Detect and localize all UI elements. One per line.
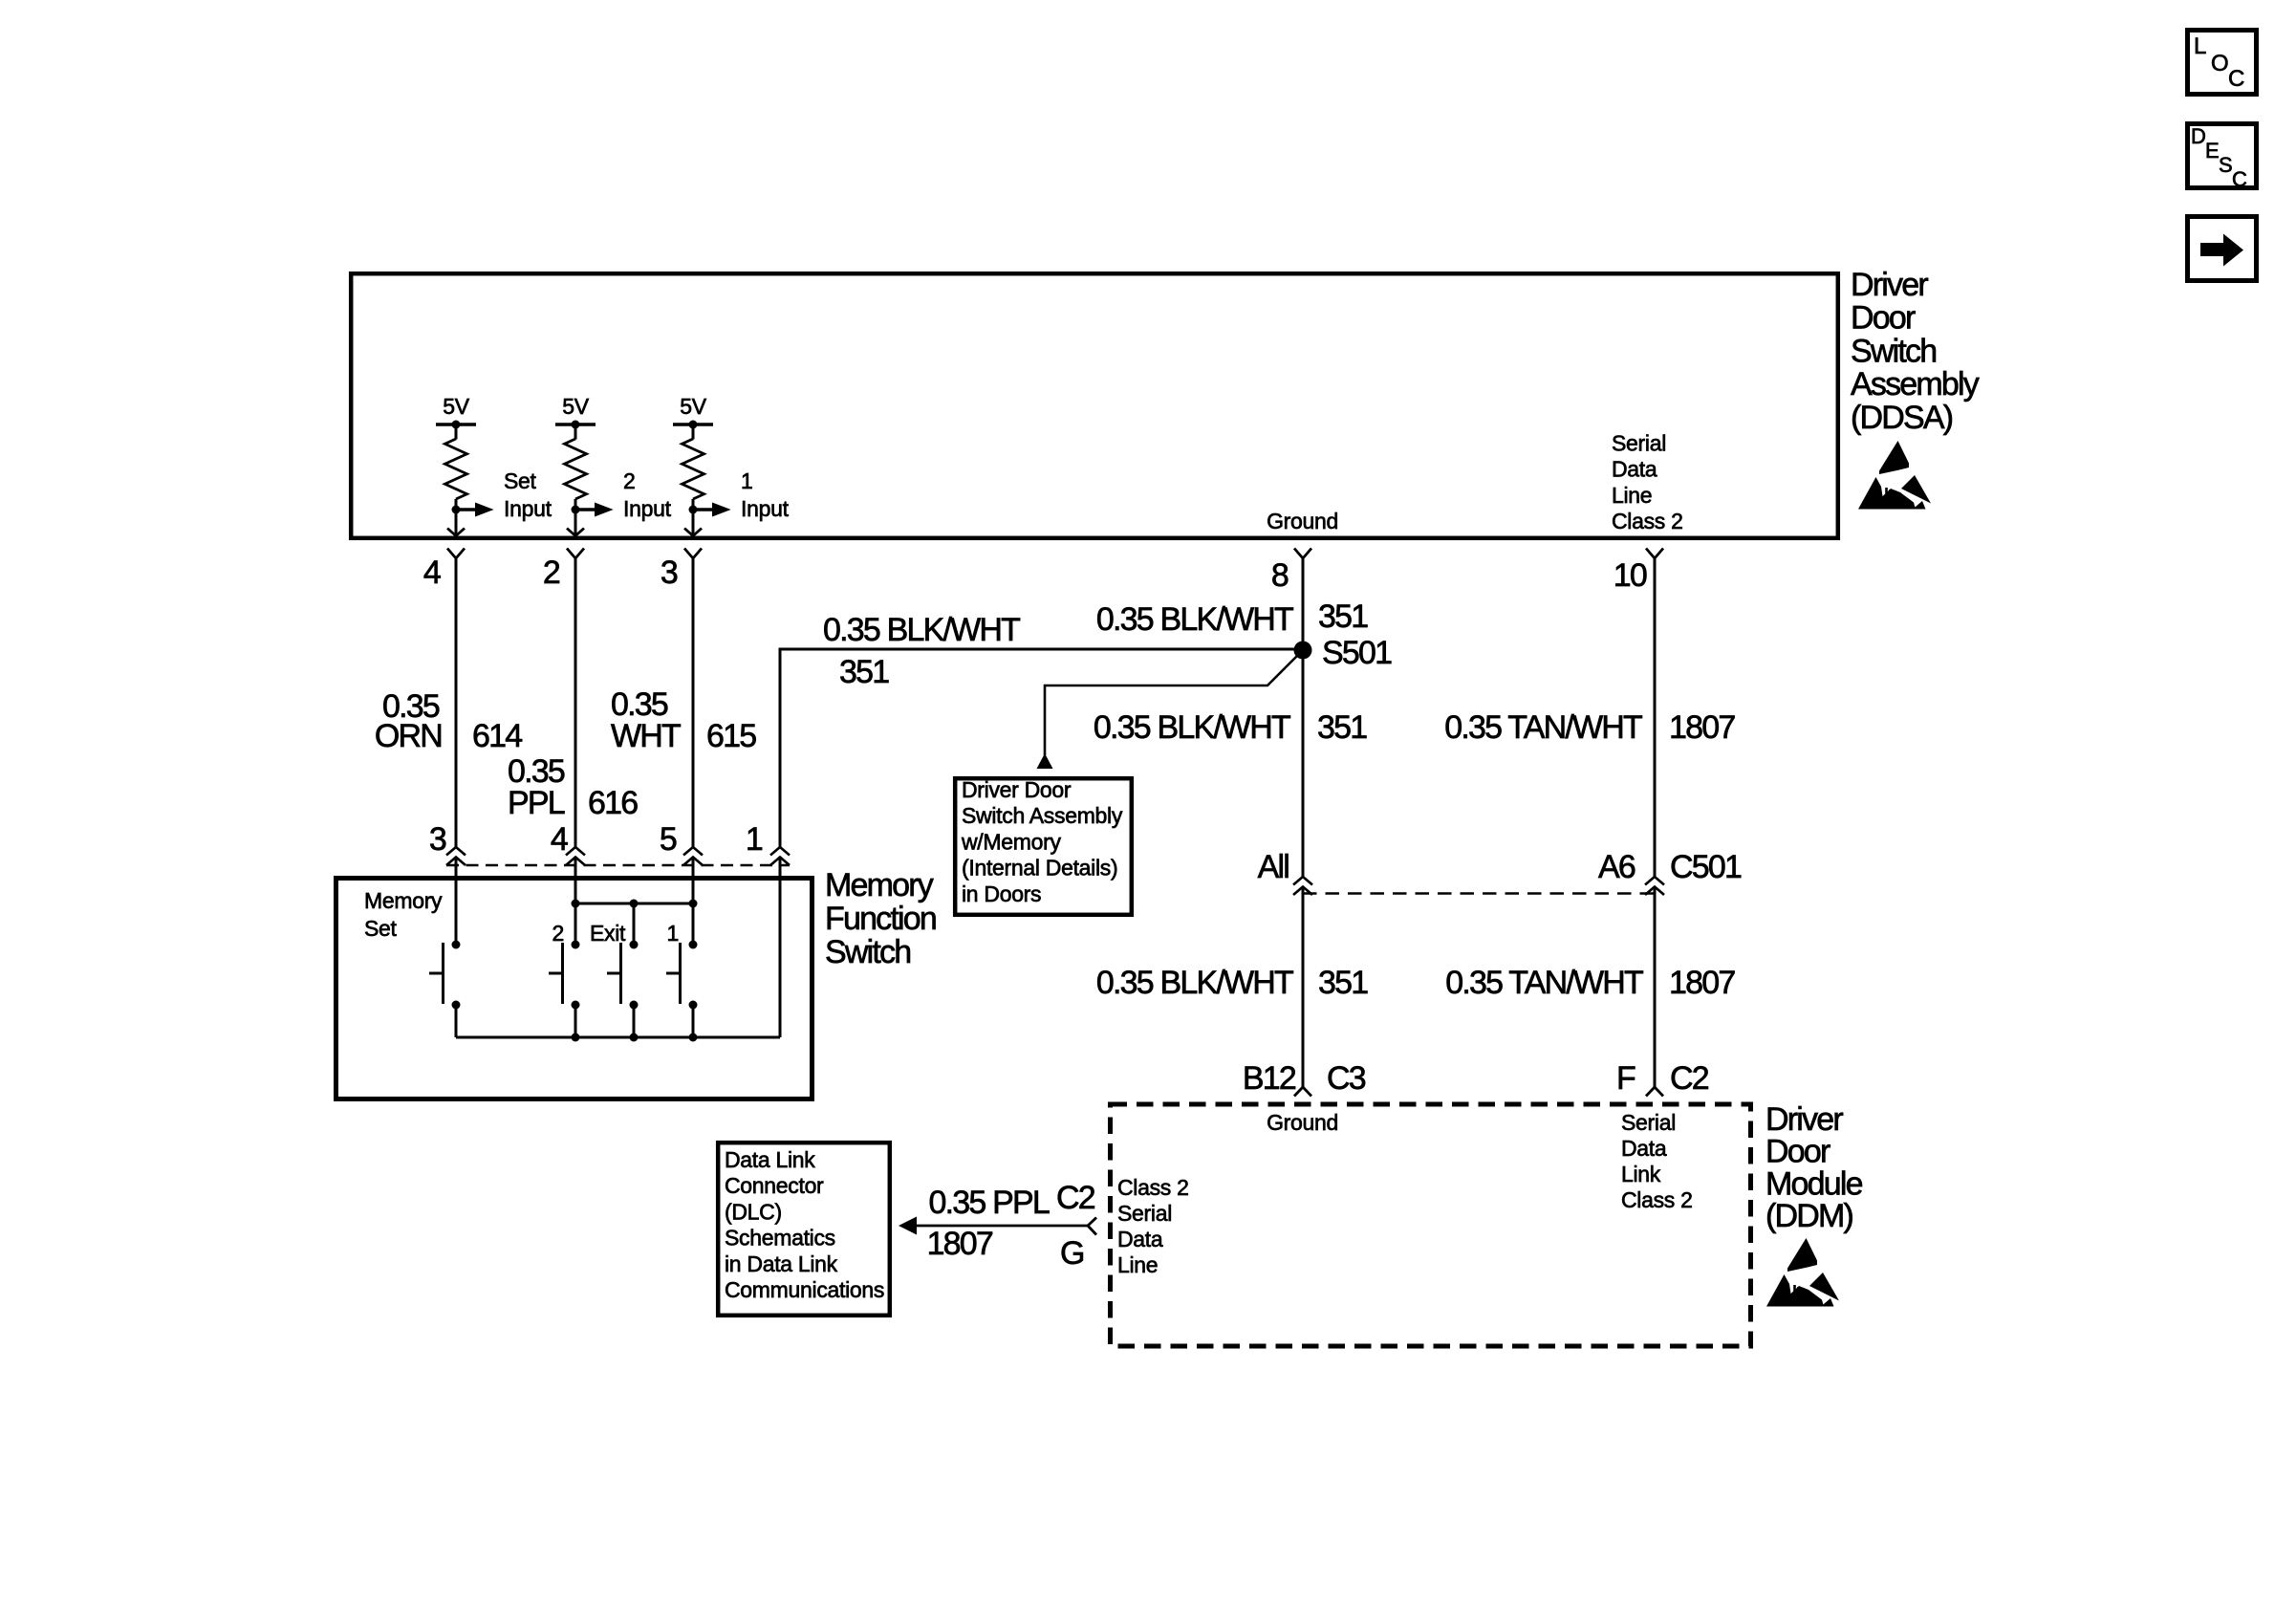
svg-text:2: 2 [552, 921, 565, 946]
Driver Door Switch Assembly (DDSA) box [351, 273, 1838, 538]
svg-text:1807: 1807 [1669, 709, 1735, 746]
svg-text:351: 351 [1317, 709, 1367, 746]
DDSA pin 2 connector [567, 549, 584, 559]
svg-text:Input: Input [623, 496, 672, 521]
svg-text:Serial: Serial [1621, 1110, 1676, 1135]
svg-text:Memory: Memory [364, 888, 443, 913]
svg-text:PPL: PPL [508, 785, 565, 821]
junction top bus left [572, 900, 580, 908]
svg-text:Line: Line [1117, 1252, 1158, 1277]
svg-text:Schematics: Schematics [725, 1226, 835, 1251]
DDSA pin 3 connector [684, 549, 702, 559]
wire 351 (C501 to DDM B12) [1302, 887, 1305, 1088]
svg-text:Function: Function [825, 901, 936, 937]
svg-text:ORN: ORN [375, 718, 442, 754]
resistor R3 with 1 Input arrow [673, 394, 790, 536]
svg-text:0.35 TAN/WHT: 0.35 TAN/WHT [1445, 965, 1643, 1001]
svg-text:w/Memory: w/Memory [961, 829, 1061, 854]
svg-text:Serial: Serial [1612, 431, 1666, 456]
svg-text:5V: 5V [680, 394, 706, 419]
DDSA pin 10 connector [1646, 549, 1663, 559]
svg-text:Link: Link [1621, 1162, 1661, 1186]
wire 1807 to DLC with arrowhead [899, 1217, 1088, 1235]
svg-text:Data Link: Data Link [725, 1147, 815, 1172]
svg-text:4: 4 [551, 821, 568, 858]
memory switch pin 1 connector [770, 847, 790, 865]
svg-text:3: 3 [429, 821, 446, 858]
svg-text:Set: Set [504, 468, 537, 493]
svg-text:1: 1 [746, 821, 763, 858]
label 0.35 ORN [375, 688, 442, 754]
wire 351 (pin 8 down through S501) [1302, 558, 1305, 877]
svg-text:Driver Door: Driver Door [962, 777, 1072, 802]
label 0.35 PPL 1807 [927, 1185, 1050, 1262]
junction top bus middle [630, 900, 639, 908]
resistor R2 with 2 Input arrow [555, 394, 672, 536]
wire 1807 (C501 to DDM F) [1654, 887, 1657, 1088]
junction bottom bus 1 [572, 1033, 580, 1042]
svg-text:B12: B12 [1243, 1060, 1296, 1097]
wire exit switch feed [633, 903, 636, 941]
svg-text:F: F [1616, 1060, 1635, 1097]
ESD sensitivity symbol (DDSA) [1858, 441, 1931, 510]
svg-text:Ground: Ground [1267, 509, 1338, 533]
svg-text:1: 1 [667, 921, 680, 946]
svg-text:O: O [2211, 51, 2228, 76]
svg-text:C2: C2 [1056, 1180, 1095, 1216]
wire switch 1 feed [692, 858, 695, 942]
svg-text:Serial: Serial [1117, 1201, 1172, 1226]
junction bottom bus 3 [689, 1033, 698, 1042]
svg-text:Class 2: Class 2 [1117, 1175, 1189, 1200]
svg-text:Line: Line [1612, 483, 1652, 508]
svg-text:WHT: WHT [611, 718, 681, 754]
ESD sensitivity symbol (DDM) [1766, 1238, 1839, 1307]
svg-text:C2: C2 [1670, 1060, 1709, 1097]
wire 615 (pin 3 to memory switch pin 5) [692, 558, 695, 847]
svg-text:5V: 5V [443, 394, 469, 419]
svg-text:L: L [2194, 33, 2206, 59]
svg-text:All: All [1258, 849, 1289, 885]
internal details note text [961, 777, 1123, 906]
svg-text:1: 1 [741, 468, 753, 493]
svg-text:1807: 1807 [927, 1226, 993, 1262]
svg-text:Data: Data [1612, 457, 1657, 482]
bottom bus [456, 1036, 780, 1039]
svg-text:C501: C501 [1670, 849, 1742, 885]
junction top bus right [689, 900, 698, 908]
Memory Set label [364, 888, 443, 941]
C501 pin A11 connector [1293, 877, 1312, 895]
svg-text:0.35 TAN/WHT: 0.35 TAN/WHT [1444, 709, 1642, 746]
svg-text:(DLC): (DLC) [725, 1199, 782, 1224]
wire 614 (pin 4 to memory switch pin 3) [455, 558, 458, 847]
Data Link Connector note box [718, 1142, 890, 1316]
wire pin 1 to bottom bus [779, 858, 782, 1038]
label 0.35 BLK/WHT 351 (below C501) [1096, 965, 1368, 1001]
svg-text:in Data Link: in Data Link [725, 1251, 838, 1276]
svg-text:Driver: Driver [1765, 1101, 1843, 1138]
resistor R1 with Set Input arrow [436, 394, 552, 536]
Memory Function Switch title [825, 867, 936, 970]
svg-text:0.35 BLK/WHT: 0.35 BLK/WHT [1096, 965, 1293, 1001]
svg-text:0.35 PPL: 0.35 PPL [929, 1185, 1050, 1221]
svg-text:Data: Data [1621, 1136, 1667, 1161]
svg-text:351: 351 [1318, 965, 1368, 1001]
svg-text:Input: Input [741, 496, 790, 521]
C501 dashed line [1303, 892, 1655, 895]
DDM pin G connector (sideways) [1088, 1218, 1096, 1235]
svg-text:Switch: Switch [825, 934, 910, 970]
C501 pin A6 connector [1645, 877, 1664, 895]
svg-text:Data: Data [1117, 1227, 1163, 1251]
svg-text:A6: A6 [1598, 849, 1635, 885]
svg-text:0.35 BLK/WHT: 0.35 BLK/WHT [1094, 709, 1290, 746]
svg-text:(DDM): (DDM) [1765, 1198, 1853, 1234]
arrowhead to internal details box [1037, 753, 1053, 769]
svg-text:D: D [2191, 124, 2206, 148]
top bus between switch 2 and 1 [575, 903, 693, 905]
svg-text:Connector: Connector [725, 1173, 824, 1198]
svg-text:351: 351 [839, 654, 889, 690]
svg-text:616: 616 [588, 785, 638, 821]
svg-text:Class 2: Class 2 [1621, 1187, 1693, 1212]
svg-text:Door: Door [1765, 1134, 1830, 1170]
svg-text:0.35 BLK/WHT: 0.35 BLK/WHT [1096, 601, 1293, 638]
svg-text:2: 2 [543, 555, 560, 591]
label 0.35 BLK/WHT 351 (upper horizontal) [823, 612, 1020, 690]
svg-text:10: 10 [1614, 557, 1647, 594]
Driver Door Module (DDM) dashed box [1111, 1104, 1751, 1346]
svg-text:S: S [2219, 153, 2232, 177]
memory switch pin 4 connector [566, 847, 585, 865]
svg-text:4: 4 [423, 555, 441, 591]
label 0.35 PPL [508, 753, 565, 821]
svg-text:5: 5 [660, 821, 677, 858]
DDSA title [1851, 267, 1980, 436]
svg-text:C: C [2228, 66, 2244, 92]
wire 351 branch to internal details note [1045, 654, 1299, 755]
wire 351 horizontal run to memory switch pin 1 [780, 649, 1303, 847]
svg-text:(DDSA): (DDSA) [1851, 400, 1953, 436]
svg-text:C: C [2232, 167, 2247, 191]
DDM title [1765, 1101, 1863, 1234]
memory switch pin 5 connector [683, 847, 703, 865]
wire switch 2 feed [574, 858, 577, 942]
svg-text:351: 351 [1318, 598, 1368, 635]
pushbutton switch 2 [549, 941, 580, 1038]
memory switch pin 3 connector [446, 847, 466, 865]
svg-text:Module: Module [1765, 1165, 1863, 1202]
DDM pin B12 connector [1294, 1087, 1311, 1097]
svg-text:Set: Set [364, 916, 398, 941]
wire memory set switch feed [455, 858, 458, 942]
DLC note text [725, 1147, 884, 1302]
DDM pin F connector [1646, 1087, 1663, 1097]
svg-text:(Internal Details): (Internal Details) [962, 856, 1117, 881]
svg-text:Communications: Communications [725, 1277, 884, 1302]
pushbutton switch Exit [607, 941, 639, 1038]
svg-text:Door: Door [1851, 300, 1916, 337]
svg-text:E: E [2205, 139, 2219, 163]
Serial Data Line Class 2 pin label (DDSA) [1612, 431, 1683, 534]
svg-text:Input: Input [504, 496, 552, 521]
Driver Door Switch Assembly w/Memory note box [955, 778, 1132, 915]
DESC icon box [2188, 124, 2257, 192]
label 0.35 BLK/WHT 351 (at pin 8) [1096, 598, 1368, 638]
label 0.35 WHT [611, 686, 681, 754]
svg-text:Ground: Ground [1267, 1110, 1338, 1135]
svg-text:Switch Assembly: Switch Assembly [962, 803, 1123, 828]
svg-text:S501: S501 [1322, 635, 1392, 671]
pushbutton switch Memory Set [429, 941, 461, 1038]
Serial Data Link Class 2 pin label (DDM) [1621, 1110, 1693, 1212]
svg-text:614: 614 [472, 718, 522, 754]
LOC icon box [2188, 31, 2257, 95]
pushbutton switch 1 [666, 941, 698, 1038]
svg-text:615: 615 [706, 718, 756, 754]
svg-text:3: 3 [661, 555, 678, 591]
DDSA pin 4 connector [447, 549, 465, 559]
svg-text:in Doors: in Doors [962, 881, 1041, 906]
svg-text:C3: C3 [1327, 1060, 1366, 1097]
DDSA pin 8 connector [1294, 549, 1311, 559]
svg-text:0.35 BLK/WHT: 0.35 BLK/WHT [823, 612, 1020, 648]
svg-text:8: 8 [1271, 557, 1289, 594]
memory switch connector dashed line [446, 864, 790, 867]
svg-text:Driver: Driver [1851, 267, 1928, 303]
Memory Function Switch box [336, 879, 812, 1099]
arrow icon box [2188, 217, 2257, 281]
svg-text:1807: 1807 [1669, 965, 1735, 1001]
svg-text:Exit: Exit [590, 921, 626, 946]
label 0.35 TAN/WHT 1807 (above C501) [1444, 709, 1735, 746]
svg-text:Class 2: Class 2 [1612, 509, 1683, 533]
wire 616 (pin 2 to memory switch pin 4) [574, 558, 577, 847]
wire 1807 (pin 10 down to C501) [1654, 558, 1657, 877]
svg-text:Assembly: Assembly [1851, 366, 1980, 402]
label 0.35 TAN/WHT 1807 (below C501) [1445, 965, 1735, 1001]
svg-text:5V: 5V [562, 394, 589, 419]
svg-text:Memory: Memory [825, 867, 934, 903]
svg-text:Switch: Switch [1851, 333, 1936, 369]
label 0.35 BLK/WHT 351 (above C501) [1094, 709, 1367, 746]
junction bottom bus 2 [630, 1033, 639, 1042]
svg-text:G: G [1060, 1235, 1084, 1272]
splice S501 [1294, 642, 1312, 660]
svg-text:2: 2 [623, 468, 636, 493]
Class 2 Serial Data Line pin label (DDM) [1117, 1175, 1189, 1277]
